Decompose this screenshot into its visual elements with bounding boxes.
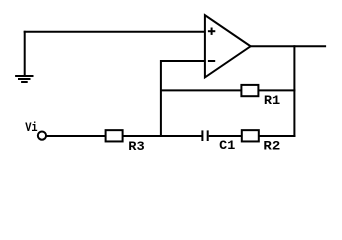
capacitor C1 [202,130,207,141]
resistor R3 [106,130,123,141]
wire R1 branch right [258,89,295,91]
source Vi terminal circle [38,132,46,140]
wire top from ground to op-amp + input [24,31,205,33]
wire R3 to C1 [123,135,202,137]
svg-text:C1: C1 [219,138,235,153]
wire R2 to right vertical [259,135,296,137]
wire mid vertical (inverting node) [160,60,162,137]
wire Vi to R3 [47,135,106,137]
resistor R2 [242,130,259,141]
wire op-amp minus input [161,60,205,62]
svg-text:R1: R1 [264,93,281,108]
wire C1 to R2 [209,135,242,137]
wire right vertical (output feedback) [293,45,295,137]
ground [15,76,33,82]
resistor R1 [241,85,258,96]
wire R1 branch left [161,89,242,91]
wire op-amp output [251,45,327,47]
svg-text:R2: R2 [263,138,280,153]
wire left vertical down to ground [24,31,26,76]
op-amp U1 [205,15,251,77]
svg-text:Vi: Vi [25,120,38,135]
svg-text:R3: R3 [128,139,145,154]
